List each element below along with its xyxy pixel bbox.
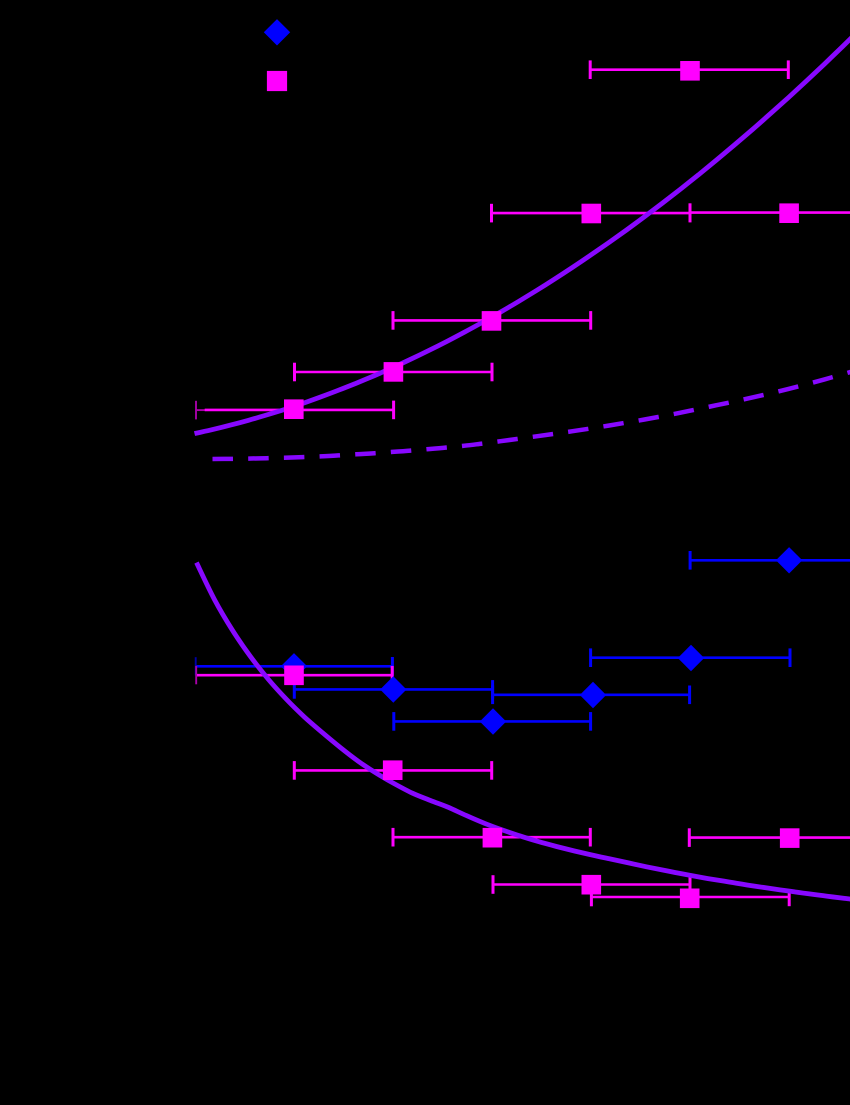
top panel dashed theory curve [213, 372, 850, 460]
bottom sq6 error bar [689, 828, 850, 847]
bottom panel solid theory curve [197, 563, 850, 900]
bottom sq4 error bar [493, 875, 690, 894]
top sq4 error bar [492, 204, 691, 223]
top square 6 [680, 61, 700, 81]
bottom d1 dim left cap [195, 657, 197, 675]
bottom diamond 4 [580, 682, 606, 708]
top square 3 [482, 311, 502, 331]
legend diamond marker [264, 19, 290, 45]
legend square marker [267, 71, 287, 91]
top square 4 [582, 204, 602, 224]
bottom square 6 [780, 828, 800, 848]
top sq6 error bar [590, 60, 788, 79]
bottom square 4 [582, 875, 602, 895]
top sq3 error bar [393, 311, 591, 330]
top square 1 [284, 399, 304, 419]
bottom diamond 3 [480, 708, 506, 734]
bottom sq1 error bar [197, 666, 392, 685]
bottom d2 error bar [294, 680, 492, 699]
bottom square 3 [483, 828, 503, 848]
top square 5 [779, 203, 799, 223]
bottom sq2 error bar [294, 761, 491, 780]
bottom sq5 error bar [591, 888, 789, 907]
bottom d3 error bar [394, 712, 591, 731]
top sq1 thin outer error bar segment [196, 401, 206, 420]
bottom sq1 dim left cap [195, 666, 197, 684]
bottom d4 error bar [493, 686, 690, 705]
bottom d1 error bar [197, 657, 393, 676]
top sq5 error bar [690, 203, 850, 222]
bottom sq3 error bar [393, 828, 590, 847]
top sq2 error bar [295, 363, 493, 382]
bottom diamond 5 [678, 645, 704, 671]
bottom diamond 2 [380, 676, 406, 702]
bottom sq5 right cap [788, 890, 791, 906]
bottom square 5 [680, 889, 700, 909]
bottom d5 error bar [591, 648, 790, 667]
top panel solid theory curve [195, 37, 850, 433]
top sq1 error bar [205, 401, 394, 420]
bottom square 1 [284, 666, 304, 686]
bottom diamond 6 [776, 547, 802, 573]
bottom d6 error bar [690, 551, 850, 570]
top square 2 [384, 362, 404, 382]
bottom square 2 [383, 760, 403, 780]
bottom diamond 1 [281, 653, 307, 679]
